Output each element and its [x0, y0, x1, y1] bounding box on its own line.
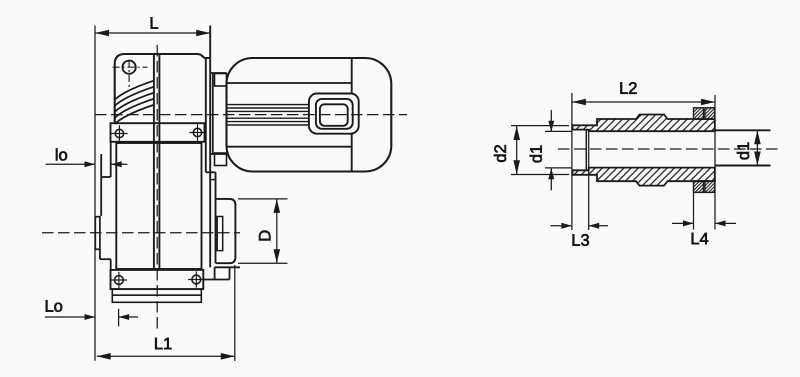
upper flange plate [111, 123, 205, 142]
output hub right boss [216, 199, 236, 263]
dimension L arrows [196, 30, 210, 37]
case left step ledge [101, 176, 111, 178]
dimension D arrows [274, 199, 281, 213]
dimension Lo label [46, 300, 62, 312]
dimension L3 right tail [589, 225, 608, 227]
bolt hole crosshair horizontal [113, 66, 148, 68]
dimension d1 right line [756, 130, 758, 165]
dimension Lo right tail [119, 316, 138, 318]
dimension L2 arrows [572, 99, 586, 106]
extension line d2 bottom [511, 174, 569, 176]
vertical centerline [156, 45, 158, 333]
motor body [227, 58, 392, 172]
dimension L3 label [573, 234, 589, 246]
dimension L4 label [692, 233, 709, 244]
left wall below hub [99, 249, 101, 259]
dimension lo right arrow [111, 161, 122, 167]
foot bracket left wall [214, 267, 216, 279]
dimension L1 label [155, 338, 171, 349]
input housing bolt hole [123, 61, 136, 74]
housing right wall inner [205, 58, 207, 172]
dimension L1 line [97, 355, 235, 357]
motor axis centerline [95, 114, 407, 116]
dimension lo label [56, 148, 67, 160]
retaining ring upper right [705, 108, 715, 120]
base bolt right [192, 275, 201, 284]
housing joint line left [153, 54, 155, 270]
retaining ring upper left [694, 108, 704, 120]
output axis centerline [42, 232, 240, 234]
left lower ledge [100, 258, 111, 260]
motor adapter top line [211, 72, 227, 74]
extension line D top [238, 198, 288, 200]
dimension L3 left tail [551, 225, 572, 227]
dimension D label [259, 231, 270, 241]
shaft lower wall section [573, 168, 715, 186]
base plate [111, 270, 204, 289]
dimension L line [95, 32, 210, 34]
dimension L4 right tail [715, 222, 736, 224]
motor adapter bottom line [211, 153, 227, 155]
dimension d1 right label [737, 143, 749, 160]
output hub left boss [95, 217, 100, 250]
extension line left main [94, 26, 96, 361]
bolt hole crosshair vertical [128, 60, 130, 89]
motor shell bottom line [227, 146, 352, 148]
dimension L4 right arrow [715, 220, 726, 226]
inserted shaft bottom line [715, 165, 771, 167]
extension line d1 bottom [545, 167, 572, 169]
foot bracket top [215, 266, 240, 268]
output hub right face line [215, 172, 217, 263]
gearbox input housing outline [115, 54, 211, 123]
dimension d1 left arrows [548, 121, 554, 132]
dimension L label [151, 17, 158, 28]
motor fin lines [227, 104, 309, 106]
counterbore step line [585, 130, 587, 171]
extension line L1 right [234, 265, 236, 361]
left lower wall [110, 259, 112, 270]
dimension lo left arrow [85, 161, 96, 167]
dimension L2 label [620, 82, 636, 94]
dimension Lo left tail [45, 316, 95, 318]
dimension L3 right arrow [589, 223, 600, 229]
housing right wall outer [209, 26, 211, 268]
dimension L3 left arrow [561, 223, 572, 229]
extension line d2 top [511, 125, 569, 127]
dimension lo left tail [46, 163, 95, 165]
case left inner wall [100, 154, 102, 216]
terminal box outer [309, 94, 359, 134]
dimension L4 left arrow [683, 220, 694, 226]
motor shell top line [227, 82, 352, 84]
retaining ring lower right [705, 181, 715, 193]
dimension Lo right arrow [119, 314, 130, 320]
base strip 1 [112, 289, 201, 295]
dimension d2 label [494, 145, 506, 162]
hub keyway detail [217, 217, 223, 251]
base bolt left [115, 276, 124, 285]
gear case [116, 143, 201, 269]
retaining ring lower left [694, 181, 704, 193]
dimension d2 line [516, 126, 518, 174]
dimension Lo tick [118, 309, 120, 327]
case left step wall upper [110, 142, 112, 177]
dimension d2 arrows [513, 126, 520, 140]
dimension d1 left lower line [550, 168, 552, 190]
flange bolt right [193, 128, 201, 136]
housing joint line right [158, 54, 160, 270]
motor end cap line [351, 58, 353, 172]
dimension L1 arrows [97, 353, 111, 360]
inserted shaft top line [715, 129, 771, 131]
right jog line [206, 171, 216, 173]
dimension d1 left label [530, 146, 542, 163]
terminal box middle [316, 99, 353, 129]
right jog line lower [211, 179, 216, 181]
shaft upper wall section [573, 115, 715, 132]
motor adapter top lug [215, 74, 227, 87]
extension line d1 top [545, 130, 572, 132]
dimension d1 left upper line [550, 110, 552, 132]
dimension lo right tail [111, 163, 127, 165]
helical gear curves [115, 81, 154, 100]
extension line D bottom [238, 262, 288, 264]
foot bracket bottom [203, 279, 229, 281]
dimension D line [276, 199, 278, 263]
dimension d1 right arrows [754, 130, 761, 144]
motor adapter face [212, 73, 214, 154]
extension line L2 right [714, 95, 716, 230]
base strip 2 [112, 295, 201, 302]
extension line L3 right [588, 131, 590, 230]
extension line L2 left [571, 93, 573, 230]
terminal box inner [320, 104, 348, 126]
dimension Lo left arrow [85, 314, 96, 320]
dimension L4 left tail [672, 222, 694, 224]
dimension L2 line [572, 101, 715, 103]
shaft axis centerline [558, 148, 779, 150]
extension line L4 left [693, 192, 695, 230]
flange bolt left [115, 129, 123, 137]
dimension lo tick [100, 154, 102, 177]
motor adapter bottom lug [215, 153, 227, 166]
foot bracket right wall [229, 267, 231, 279]
